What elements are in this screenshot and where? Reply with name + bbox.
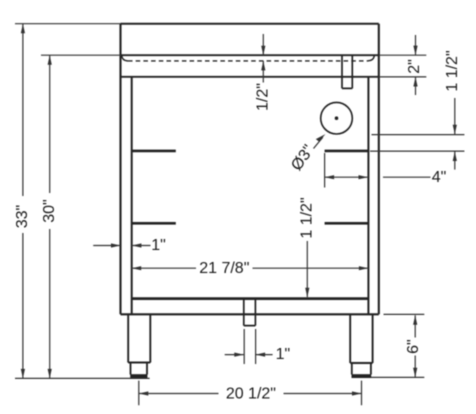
hidden line right fillet — [368, 56, 375, 61]
extension lines below drain stub (1") — [244, 329, 255, 364]
dimension 2" — [415, 35, 417, 55]
dimension 1" left wall — [93, 245, 120, 247]
ground line — [15, 377, 150, 379]
dimension 1" drain stub — [225, 354, 244, 356]
svg-text:33": 33" — [14, 205, 31, 228]
right leg foot — [352, 363, 371, 375]
right leg — [350, 314, 372, 363]
dimension 1 1/2" right — [454, 98, 456, 134]
countertop hidden rolled edge (dashed) — [128, 60, 368, 62]
dimension 21 7/8" — [132, 267, 196, 269]
dimension 1 1/2" interior — [306, 241, 308, 297]
extension line foot bottom right (6") — [371, 376, 424, 378]
dimension 20 1/2" — [139, 393, 219, 395]
cabinet right inner wall — [367, 77, 369, 314]
cabinet bottom outer edge — [121, 313, 379, 315]
drawer slide upper left — [132, 150, 176, 153]
svg-text:1/2": 1/2" — [255, 83, 272, 111]
svg-text:1 1/2": 1 1/2" — [299, 197, 316, 238]
svg-text:30": 30" — [41, 199, 58, 222]
extension drop line from slide left end (4") — [324, 153, 326, 188]
cabinet left inner wall — [131, 77, 133, 314]
extension line circle bottom (1 1/2") — [372, 134, 465, 136]
svg-text:6": 6" — [405, 339, 422, 354]
cabinet top edge — [121, 76, 379, 78]
dimension 6" — [414, 315, 416, 337]
leader for hole diameter — [314, 137, 323, 148]
svg-text:1": 1" — [151, 237, 166, 254]
extension lines leg centers (20 1/2") — [139, 381, 362, 406]
drawer slide lower left — [132, 222, 176, 225]
rear hanger bracket under countertop — [342, 55, 352, 88]
dimension 4" — [325, 176, 368, 178]
extension line top-left (33") — [15, 23, 121, 25]
drawer slide lower right — [325, 222, 369, 225]
countertop top edge — [121, 23, 379, 25]
left leg — [128, 314, 150, 362]
svg-text:20 1/2": 20 1/2" — [226, 386, 276, 403]
extension line countertop bottom left (30") — [41, 54, 121, 56]
hole center dot — [335, 116, 339, 120]
svg-text:21 7/8": 21 7/8" — [199, 260, 249, 277]
countertop left edge / cabinet left outer wall — [119, 24, 121, 315]
countertop right edge / cabinet right outer wall — [378, 24, 380, 315]
extension line slide top right (1 1/2") — [370, 150, 464, 152]
cabinet bottom shelf — [132, 297, 369, 300]
svg-text:4": 4" — [432, 169, 447, 186]
hole circle — [321, 102, 353, 134]
svg-text:1 1/2": 1 1/2" — [444, 50, 461, 91]
extension line cabinet bottom right (6") — [384, 313, 425, 315]
dimension 30" — [49, 55, 51, 193]
dimension 33" — [22, 24, 24, 196]
drawer slide upper right — [325, 150, 369, 153]
dimension 1/2" — [262, 34, 264, 55]
countertop bottom edge — [121, 54, 379, 56]
svg-text:1": 1" — [276, 346, 291, 363]
extension line countertop bottom right (2") — [379, 54, 427, 56]
left leg foot — [131, 363, 148, 375]
svg-text:2": 2" — [406, 59, 423, 74]
extension line cabinet top right (2") — [379, 76, 427, 78]
drain stub under cabinet bottom — [244, 299, 256, 326]
hidden line left fillet — [122, 56, 128, 61]
